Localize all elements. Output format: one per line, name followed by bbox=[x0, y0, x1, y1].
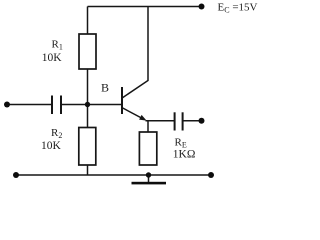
svg-text:1KΩ: 1KΩ bbox=[173, 149, 196, 161]
svg-text:EC =15V: EC =15V bbox=[218, 1, 258, 14]
svg-text:10K: 10K bbox=[42, 52, 63, 64]
svg-text:B: B bbox=[101, 80, 109, 94]
svg-text:10K: 10K bbox=[41, 140, 62, 152]
